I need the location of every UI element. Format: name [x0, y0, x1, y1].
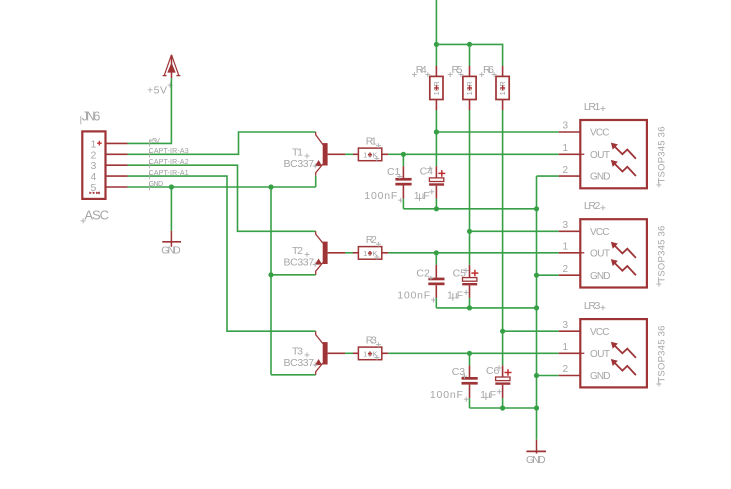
junction OUT2 node — [434, 250, 439, 255]
wire VCC2 to LR2 — [470, 230, 559, 232]
svg-text:LR1: LR1 — [584, 101, 601, 113]
wire VCC3 to LR3 — [503, 330, 559, 332]
svg-text:R2: R2 — [366, 234, 377, 246]
wire rail2 — [436, 307, 536, 309]
svg-text:T1: T1 — [292, 146, 303, 158]
pin 3 stub — [106, 164, 128, 166]
capacitor C5 — [447, 231, 478, 308]
junction LR3 gnd tap — [534, 373, 539, 378]
ground symbol left — [161, 231, 181, 257]
connector JN6 — [82, 131, 105, 199]
svg-text:T3: T3 — [292, 345, 303, 357]
junction VCC3 — [500, 329, 505, 334]
wire GND row to T1 emitter — [128, 186, 316, 188]
svg-text:VCC: VCC — [590, 227, 610, 238]
transistor T2 — [284, 231, 346, 274]
wire rail3 — [470, 407, 537, 409]
resistor R2 — [353, 234, 388, 260]
svg-text:R4: R4 — [416, 64, 427, 76]
svg-text:VCC: VCC — [590, 327, 610, 338]
svg-text:R1: R1 — [366, 135, 377, 147]
svg-text:+5V: +5V — [147, 85, 167, 97]
junction T2 emitter — [268, 272, 273, 277]
wire VCC1 to LR1 — [436, 131, 558, 133]
svg-text:GND: GND — [149, 181, 163, 188]
+5V supply symbol P1 — [147, 55, 180, 97]
svg-text:1µF: 1µF — [447, 290, 463, 302]
wire OUT2 to LR2 — [436, 252, 559, 254]
wire R4 top — [435, 44, 437, 66]
resistor R1 — [353, 135, 388, 161]
svg-text:100nF: 100nF — [397, 290, 430, 302]
svg-text:JN6: JN6 — [82, 109, 101, 124]
svg-text:+5V: +5V — [149, 138, 160, 145]
junction rail1 gnd column — [534, 206, 539, 211]
capacitor C1 — [364, 154, 411, 209]
wire R2 to node — [388, 252, 436, 254]
wire LR2 gnd pin wire — [537, 274, 559, 276]
svg-text:C5: C5 — [453, 268, 467, 280]
label JN6 — [81, 109, 101, 125]
svg-text:1: 1 — [562, 242, 568, 253]
svg-text:1: 1 — [562, 342, 568, 353]
svg-text:T2: T2 — [292, 245, 303, 257]
wire T3 base to R3 — [345, 352, 353, 354]
svg-text:1µF: 1µF — [480, 389, 496, 401]
junction OUT3 node — [467, 351, 472, 356]
svg-text:GND: GND — [161, 244, 181, 256]
wire LR3 gnd pin wire — [537, 375, 559, 377]
svg-text:R3: R3 — [366, 334, 377, 346]
svg-text:C2: C2 — [416, 268, 430, 280]
wire top rail — [436, 44, 502, 66]
net label +5V — [149, 138, 160, 147]
IR receiver LR3 — [559, 300, 668, 387]
svg-text:LR3: LR3 — [584, 300, 601, 312]
svg-text:CAPT-IR-A2: CAPT-IR-A2 — [149, 159, 189, 166]
wire OUT1 to LR1 — [403, 153, 558, 155]
capacitor C6 — [480, 331, 511, 408]
svg-text:C6: C6 — [486, 365, 500, 377]
resistor R3 — [353, 334, 388, 360]
svg-text:OUT: OUT — [590, 349, 610, 360]
wire CAPT-IR-A2 to T2 collector — [128, 165, 316, 231]
junction top rail R4 — [434, 42, 439, 47]
svg-text:1: 1 — [562, 143, 568, 154]
pin 5 stub — [106, 186, 128, 188]
transistor T1 — [284, 132, 346, 187]
svg-text:OUT: OUT — [590, 248, 610, 259]
wire rail1 — [403, 208, 536, 210]
pin 4 stub — [106, 175, 128, 177]
svg-text:TSOP345 36: TSOP345 36 — [657, 127, 668, 184]
svg-text:ASC: ASC — [84, 208, 109, 223]
svg-text:GND: GND — [526, 454, 546, 466]
svg-text:TSOP345 36: TSOP345 36 — [657, 326, 668, 383]
svg-text:100nF: 100nF — [364, 190, 397, 202]
resistor R4 — [412, 64, 443, 110]
wire T3 emitter row — [271, 374, 316, 376]
svg-text:2: 2 — [562, 364, 568, 375]
svg-text:LR2: LR2 — [584, 200, 601, 212]
junction emitter column — [268, 184, 273, 189]
junction rail1 C4 — [434, 206, 439, 211]
wire GND drop to symbol — [170, 187, 172, 231]
wire R3 to node — [388, 352, 469, 354]
svg-text:3: 3 — [562, 220, 568, 231]
wire CAPT-IR-A1 to T3 collector — [128, 176, 316, 331]
net label CAPT-IR-A3 — [149, 148, 189, 157]
junction VCC1 — [434, 129, 439, 134]
wire +5V vertical to pin1 — [128, 78, 172, 143]
ground symbol bottom — [526, 440, 546, 466]
transistor T3 — [284, 331, 346, 375]
svg-text:1µF: 1µF — [414, 190, 430, 202]
wire top feed from edge — [435, 0, 437, 44]
wire LR1 gnd pin wire — [537, 175, 559, 177]
junction OUT1 node — [401, 152, 406, 157]
svg-text:VCC: VCC — [590, 128, 610, 139]
junction at GND symbol drop — [169, 184, 174, 189]
svg-text:2: 2 — [562, 264, 568, 275]
wire emitter column — [270, 187, 272, 375]
svg-text:3: 3 — [562, 320, 568, 331]
capacitor C3 — [430, 353, 478, 408]
wire T2 base to R2 — [345, 252, 353, 254]
capacitor C2 — [397, 253, 444, 308]
wire gnd column — [536, 176, 538, 440]
wire OUT3 to LR3 — [470, 352, 559, 354]
svg-text:BC337: BC337 — [284, 257, 315, 269]
wire R4 column to VCC1 node — [435, 110, 437, 132]
wire CAPT-IR-A3 to T1 collector — [128, 132, 316, 154]
net label CAPT-IR-A2 — [149, 159, 189, 168]
junction VCC2 — [467, 229, 472, 234]
pin 2 stub — [106, 153, 128, 155]
svg-text:GND: GND — [590, 271, 611, 282]
svg-text:GND: GND — [590, 172, 611, 183]
junction rail2 gnd column — [534, 305, 539, 310]
svg-text:CAPT-IR-A3: CAPT-IR-A3 — [149, 148, 189, 155]
capacitor C4 — [414, 132, 446, 209]
junction rail3 C6 — [500, 405, 505, 410]
net label CAPT-IR-A1 — [149, 170, 189, 179]
svg-text:BC337: BC337 — [284, 357, 315, 369]
junction top rail R5 — [467, 42, 472, 47]
junction LR2 gnd tap — [534, 273, 539, 278]
svg-text:3: 3 — [562, 121, 568, 132]
svg-text:GND: GND — [590, 371, 611, 382]
pin 1 stub — [106, 142, 128, 144]
wire T2 emitter row — [271, 274, 316, 276]
wire R5 column to VCC2 node — [469, 110, 471, 231]
IR receiver LR2 — [559, 200, 668, 287]
junction rail3 gnd column — [534, 405, 539, 410]
svg-text:TSOP345 36: TSOP345 36 — [657, 226, 668, 283]
resistor R5 — [448, 64, 476, 110]
wire R5 top — [469, 44, 471, 66]
svg-text:OUT: OUT — [590, 150, 610, 161]
IR receiver LR1 — [559, 101, 668, 188]
wire R6 column to VCC3 node — [502, 110, 504, 331]
svg-text:BC337: BC337 — [284, 158, 315, 170]
resistor R6 — [479, 64, 509, 110]
svg-text:100nF: 100nF — [430, 389, 463, 401]
svg-text:2: 2 — [562, 165, 568, 176]
wire T1 base to R1 — [345, 153, 353, 155]
svg-text:CAPT-IR-A1: CAPT-IR-A1 — [149, 170, 189, 177]
net label GND — [149, 181, 163, 190]
junction rail2 C5 — [467, 305, 472, 310]
label ASC — [81, 208, 109, 224]
svg-text:C4: C4 — [420, 166, 434, 178]
wire R1 to node — [388, 153, 403, 155]
